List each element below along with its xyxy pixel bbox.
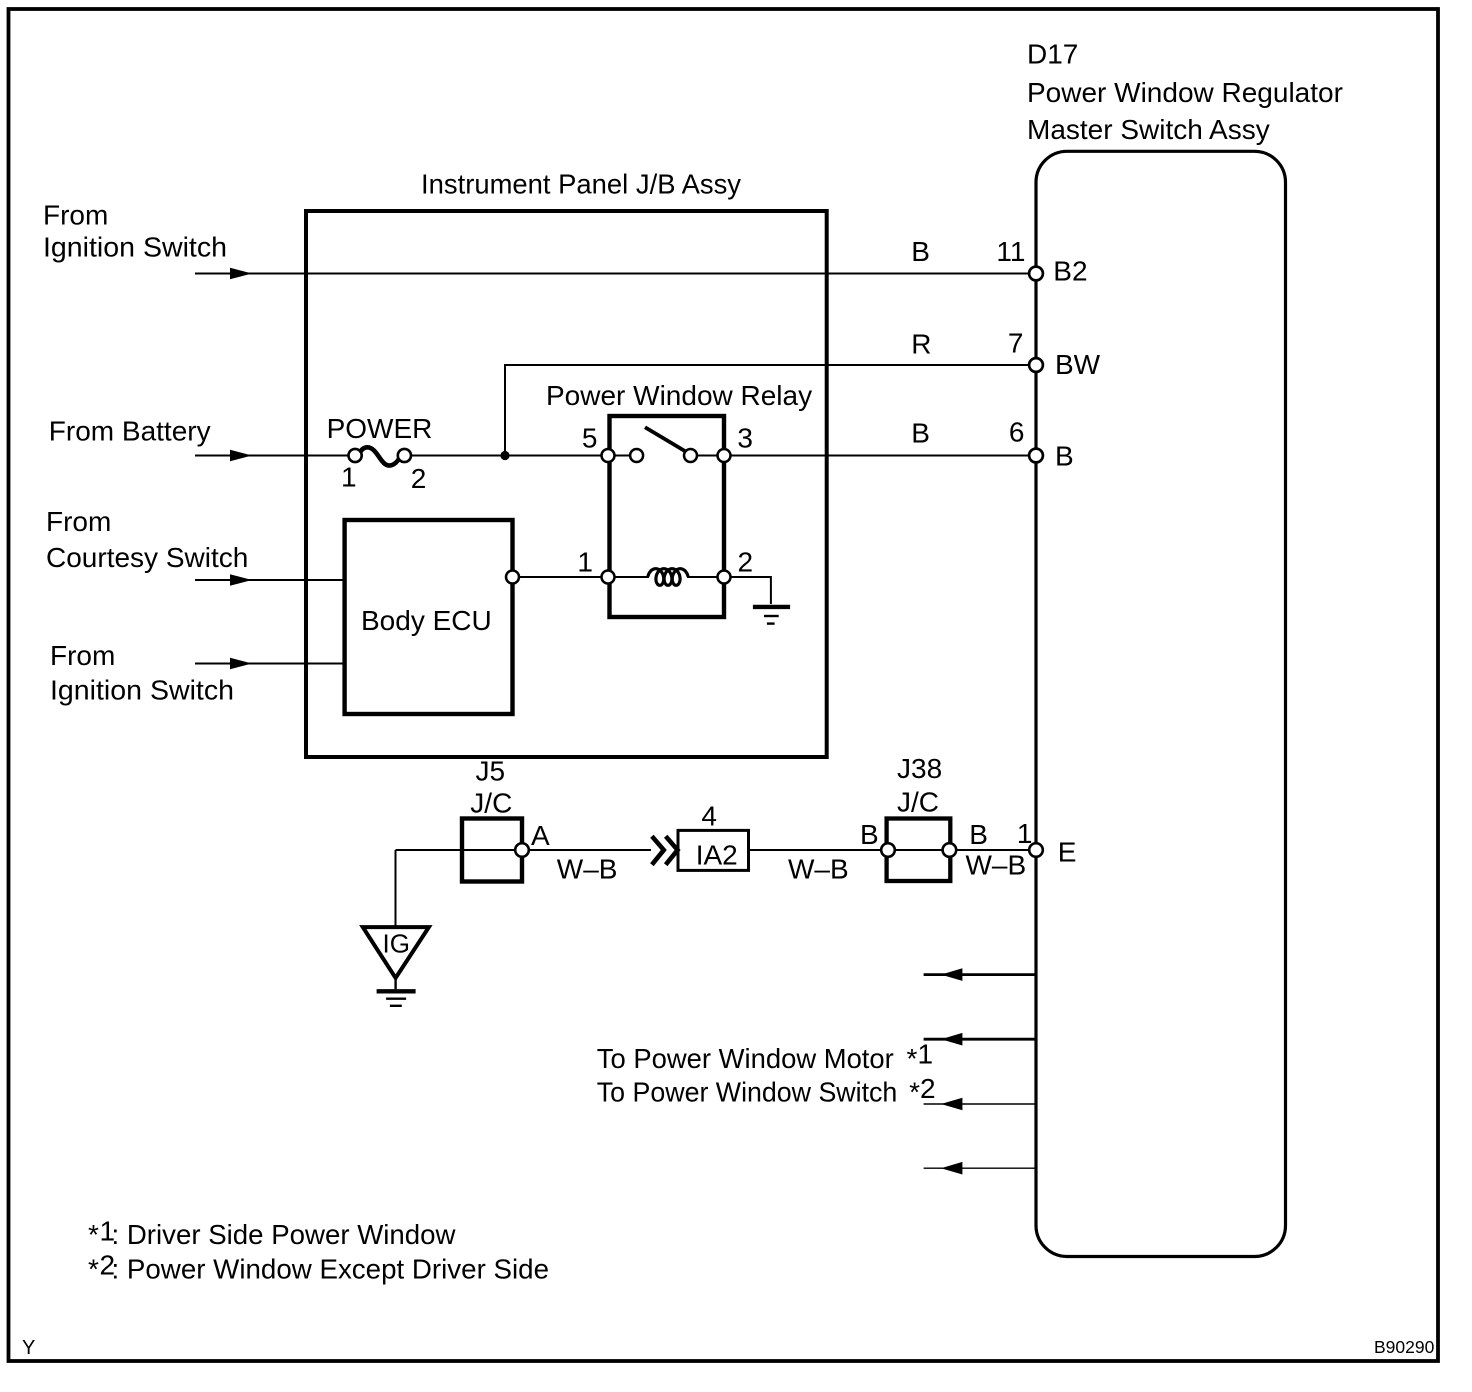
svg-text:Ignition Switch: Ignition Switch xyxy=(43,231,227,262)
svg-text:Body ECU: Body ECU xyxy=(361,605,492,636)
svg-text:B: B xyxy=(860,819,879,850)
svg-text:To Power Window Motor: To Power Window Motor xyxy=(597,1043,894,1074)
svg-text:BW: BW xyxy=(1055,349,1101,380)
arrow switch output 2 xyxy=(941,1162,962,1175)
ECU: Body ECU xyxy=(345,520,513,714)
wire: ignition switch to Body ECU xyxy=(195,663,344,665)
svg-text:4: 4 xyxy=(701,801,717,832)
arrow on ignition switch wire xyxy=(230,268,252,279)
svg-text:B2: B2 xyxy=(1053,256,1087,287)
svg-text:Power Window Relay: Power Window Relay xyxy=(546,380,812,411)
relay switch contact circles xyxy=(630,449,697,462)
footnote *1 Driver Side Power Window xyxy=(88,1216,456,1251)
svg-text:Instrument Panel J/B Assy: Instrument Panel J/B Assy xyxy=(421,169,741,200)
label From Ignition Switch (top) xyxy=(43,199,227,262)
svg-text:*: * xyxy=(907,1043,918,1074)
svg-text:B: B xyxy=(911,236,930,267)
Body ECU output node xyxy=(506,571,519,584)
wire: switch output 2 xyxy=(924,1167,1036,1169)
inline connector chevrons xyxy=(652,836,678,865)
svg-text:6: 6 xyxy=(1009,416,1025,447)
arrow motor output 2 xyxy=(941,1033,962,1046)
svg-text:From: From xyxy=(50,640,115,671)
label From Courtesy Switch xyxy=(46,506,248,573)
svg-text:*: * xyxy=(88,1253,99,1284)
arrow switch output 1 xyxy=(941,1098,962,1111)
wire: motor output 1 xyxy=(924,973,1036,976)
svg-text:5: 5 xyxy=(582,422,598,453)
svg-text:J/C: J/C xyxy=(897,787,939,818)
svg-text:2: 2 xyxy=(738,546,754,577)
svg-text:IG: IG xyxy=(383,929,410,959)
svg-text:B: B xyxy=(1055,441,1074,472)
svg-text:J38: J38 xyxy=(897,753,942,784)
footnote *2 Power Window Except Driver Side xyxy=(88,1250,549,1285)
wire: relay coil pin 2 to ground xyxy=(687,577,771,604)
svg-text:From: From xyxy=(46,506,111,537)
svg-text:Master Switch Assy: Master Switch Assy xyxy=(1027,114,1270,145)
svg-text:POWER: POWER xyxy=(327,413,433,444)
svg-text:From: From xyxy=(43,199,108,230)
pin circle B2 xyxy=(1029,267,1043,281)
svg-text:IA2: IA2 xyxy=(696,840,738,871)
svg-text:Ignition Switch: Ignition Switch xyxy=(50,674,234,705)
label To Power Window Motor *1 xyxy=(597,1039,933,1074)
pin circle E xyxy=(1029,843,1043,857)
svg-text:2: 2 xyxy=(920,1073,936,1104)
svg-text:: Power Window Except Driver S: : Power Window Except Driver Side xyxy=(112,1253,550,1284)
relay switch blade xyxy=(645,427,687,452)
svg-text:: Driver Side Power Window: : Driver Side Power Window xyxy=(112,1219,457,1250)
svg-text:W–B: W–B xyxy=(557,854,618,885)
connector IA2 xyxy=(678,830,749,870)
svg-text:11: 11 xyxy=(996,236,1025,267)
wire: battery feed to relay and pin 6 xyxy=(195,455,1036,457)
svg-text:R: R xyxy=(911,329,931,360)
junction connector J5 J/C xyxy=(462,819,529,882)
ground (relay coil) xyxy=(753,607,790,624)
svg-text:*: * xyxy=(909,1076,920,1107)
pin circle B xyxy=(1029,449,1043,463)
wire: J5 ground run to pin E xyxy=(396,849,1037,851)
wire: junction up and right to pin BW xyxy=(505,365,1036,456)
arrow motor output 1 xyxy=(941,968,962,981)
wire: Body ECU output to relay coil pin 1 xyxy=(513,576,650,578)
label From Ignition Switch (lower) xyxy=(50,640,234,705)
svg-text:2: 2 xyxy=(411,463,427,494)
wire: switch output 1 xyxy=(924,1103,1036,1105)
pin circle BW xyxy=(1029,358,1043,372)
svg-text:*: * xyxy=(88,1219,99,1250)
wire: motor output 2 xyxy=(924,1038,1036,1041)
ground IG xyxy=(363,927,429,1006)
svg-text:A: A xyxy=(531,820,550,851)
wire: ignition switch to pin B2 xyxy=(195,273,1036,275)
svg-text:J/C: J/C xyxy=(470,788,512,819)
svg-text:B: B xyxy=(911,417,930,448)
svg-text:B90290: B90290 xyxy=(1374,1337,1435,1357)
svg-text:Courtesy Switch: Courtesy Switch xyxy=(46,542,248,573)
svg-text:1: 1 xyxy=(918,1039,934,1070)
svg-text:E: E xyxy=(1058,836,1077,867)
relay coil xyxy=(648,569,688,586)
svg-text:B: B xyxy=(969,819,988,850)
connector D17 Power Window Regulator Master Switch Assy xyxy=(1036,151,1286,1256)
node: junction of battery wire and relay coil supply xyxy=(500,451,509,460)
junction connector J38 J/C xyxy=(881,819,956,882)
arrow on lower ignition switch wire xyxy=(230,658,252,669)
fuse POWER xyxy=(349,447,412,465)
svg-text:7: 7 xyxy=(1008,328,1024,359)
svg-text:D17: D17 xyxy=(1027,39,1078,70)
svg-text:Power Window Regulator: Power Window Regulator xyxy=(1027,77,1343,108)
label To Power Window Switch *2 xyxy=(597,1073,936,1107)
svg-text:W–B: W–B xyxy=(966,850,1027,881)
svg-text:3: 3 xyxy=(737,422,753,453)
junction block: Instrument Panel J/B Assy xyxy=(306,211,827,757)
svg-text:J5: J5 xyxy=(476,756,506,787)
svg-text:W–B: W–B xyxy=(788,854,849,885)
relay: Power Window Relay xyxy=(610,416,725,617)
arrow on battery wire xyxy=(230,450,252,461)
svg-text:From Battery: From Battery xyxy=(49,416,211,447)
wire: drop to IG ground xyxy=(395,850,397,927)
svg-text:To Power Window Switch: To Power Window Switch xyxy=(597,1076,898,1107)
svg-text:1: 1 xyxy=(341,461,357,492)
wire: courtesy switch to Body ECU xyxy=(195,579,344,581)
svg-text:1: 1 xyxy=(577,546,593,577)
svg-text:Y: Y xyxy=(22,1337,35,1359)
arrow on courtesy switch wire xyxy=(230,574,252,585)
